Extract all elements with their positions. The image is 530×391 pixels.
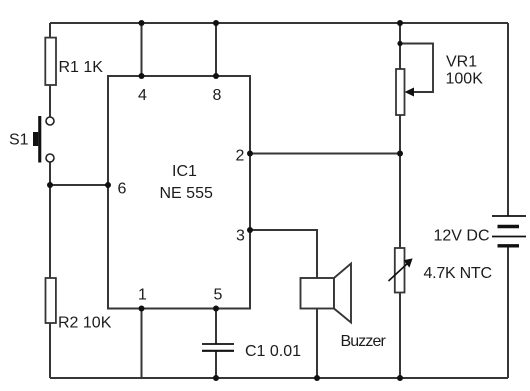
node pin4 box xyxy=(139,73,145,79)
svg-text:R2 10K: R2 10K xyxy=(58,315,112,332)
potentiometer VR1 xyxy=(396,44,433,116)
svg-text:1: 1 xyxy=(138,287,147,304)
wire VR1 to NTC xyxy=(399,115,401,248)
svg-text:100K: 100K xyxy=(446,71,484,88)
resistor R1 xyxy=(45,38,56,85)
svg-text:S1: S1 xyxy=(9,132,29,149)
wire right rail upper (to battery) xyxy=(507,23,509,216)
svg-text:4.7K NTC: 4.7K NTC xyxy=(424,265,492,282)
wire pin 5 to C1 xyxy=(215,309,217,345)
wire VR1 branch top xyxy=(399,23,401,69)
wire pin 2 xyxy=(250,153,400,155)
node pin8 top rail xyxy=(213,20,219,26)
node NTC bottom rail xyxy=(397,375,403,381)
wire right rail lower (battery to bottom) xyxy=(507,246,509,378)
svg-text:12V DC: 12V DC xyxy=(434,228,490,245)
wire C1 to bottom rail xyxy=(215,351,217,378)
wire pin 6 xyxy=(50,184,108,186)
wire top rail xyxy=(50,22,508,24)
svg-text:5: 5 xyxy=(214,287,223,304)
wire bottom rail xyxy=(50,377,508,379)
svg-text:6: 6 xyxy=(118,181,127,198)
capacitor C1 xyxy=(202,344,234,351)
svg-text:4: 4 xyxy=(138,87,147,104)
wire S1 to node 6 and down to R2 xyxy=(49,162,51,278)
node pin5 box xyxy=(213,306,219,312)
svg-text:C1 0.01: C1 0.01 xyxy=(245,343,301,360)
wire pin 3 to buzzer xyxy=(250,230,317,278)
svg-text:R1 1K: R1 1K xyxy=(59,59,104,76)
thermistor 4.7K NTC xyxy=(389,248,413,293)
buzzer (speaker symbol) xyxy=(301,264,352,323)
wire pin 8 xyxy=(215,23,217,76)
svg-text:VR1: VR1 xyxy=(446,54,477,71)
IC U1: timer IC1 NE 555 body xyxy=(108,76,250,309)
node pin2 xyxy=(247,151,253,157)
node S1-R2 junction xyxy=(47,182,53,188)
wire R1 to S1 xyxy=(49,85,51,117)
node pin8 box xyxy=(213,73,219,79)
wire pin 4 xyxy=(141,23,143,76)
node pin1 box xyxy=(139,306,145,312)
svg-text:IC1: IC1 xyxy=(172,163,197,180)
svg-text:3: 3 xyxy=(236,228,245,245)
node buzzer bottom rail xyxy=(314,375,320,381)
node VR1 wiper tap xyxy=(397,41,402,46)
svg-text:8: 8 xyxy=(213,87,222,104)
node pin2-VR1 xyxy=(397,151,403,157)
switch S1 xyxy=(33,116,54,163)
wire buzzer to bottom rail xyxy=(316,309,318,379)
svg-text:Buzzer: Buzzer xyxy=(341,333,387,350)
wire pin 1 xyxy=(141,309,143,379)
resistor R2 xyxy=(46,278,56,323)
node pin3 xyxy=(247,227,253,233)
node C1 bottom rail xyxy=(213,375,219,381)
node pin4 top rail xyxy=(139,20,145,26)
wire R2 to bottom rail xyxy=(49,323,51,378)
battery 12V DC xyxy=(492,216,526,246)
node pin6 xyxy=(105,182,111,188)
svg-text:NE 555: NE 555 xyxy=(160,185,213,202)
wire left rail top (to R1) xyxy=(49,23,51,38)
wire NTC to bottom rail xyxy=(399,293,401,379)
node VR1 top rail xyxy=(397,20,403,26)
svg-text:2: 2 xyxy=(236,148,245,165)
